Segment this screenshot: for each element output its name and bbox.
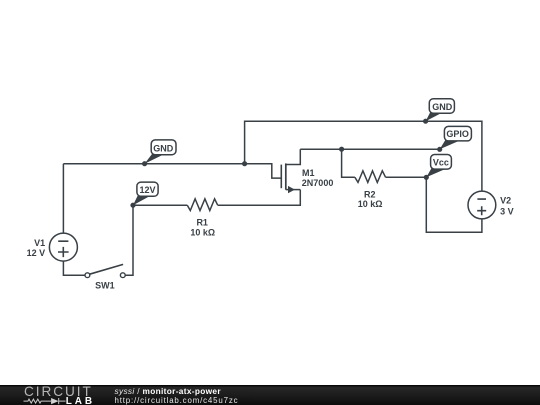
svg-text:Vcc: Vcc	[433, 158, 449, 168]
svg-text:3 V: 3 V	[500, 207, 514, 217]
svg-text:GPIO: GPIO	[446, 129, 469, 139]
svg-text:12V: 12V	[139, 185, 155, 195]
svg-text:2N7000: 2N7000	[302, 178, 334, 188]
svg-text:12 V: 12 V	[27, 248, 46, 258]
svg-text:V2: V2	[500, 196, 511, 206]
svg-text:SW1: SW1	[95, 280, 115, 290]
svg-text:GND: GND	[153, 143, 174, 153]
svg-text:10 kΩ: 10 kΩ	[358, 199, 383, 209]
svg-text:M1: M1	[302, 168, 315, 178]
svg-text:R2: R2	[364, 189, 376, 199]
svg-text:GND: GND	[432, 102, 453, 112]
svg-text:V1: V1	[34, 238, 45, 248]
svg-text:10 kΩ: 10 kΩ	[190, 227, 215, 237]
svg-text:R1: R1	[196, 217, 208, 227]
